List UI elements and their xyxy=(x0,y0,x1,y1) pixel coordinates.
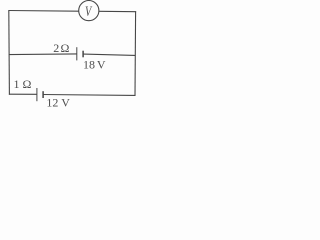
svg-text:Ω: Ω xyxy=(61,41,70,55)
svg-text:Ω: Ω xyxy=(23,77,32,91)
battery 12V short plate xyxy=(42,91,44,98)
voltmeter V circle xyxy=(79,1,99,21)
wire top rail right segment xyxy=(99,10,136,12)
wire middle rail left segment xyxy=(9,53,77,56)
wire left vertical xyxy=(8,10,11,95)
battery 18V long plate xyxy=(76,47,78,60)
battery 12V long plate xyxy=(36,88,38,101)
wire right vertical xyxy=(134,11,137,96)
svg-text:1: 1 xyxy=(14,77,20,91)
svg-text:V: V xyxy=(97,57,106,71)
svg-text:12: 12 xyxy=(46,95,58,109)
wire middle rail right segment xyxy=(83,54,135,55)
wire top rail left segment xyxy=(9,10,79,13)
svg-text:2: 2 xyxy=(53,41,59,55)
wire bottom rail left segment xyxy=(9,93,37,95)
battery 18V short plate xyxy=(82,51,84,58)
wire bottom rail right segment xyxy=(43,94,135,97)
svg-text:V: V xyxy=(85,4,93,20)
svg-text:V: V xyxy=(61,95,70,109)
svg-text:18: 18 xyxy=(83,57,95,71)
